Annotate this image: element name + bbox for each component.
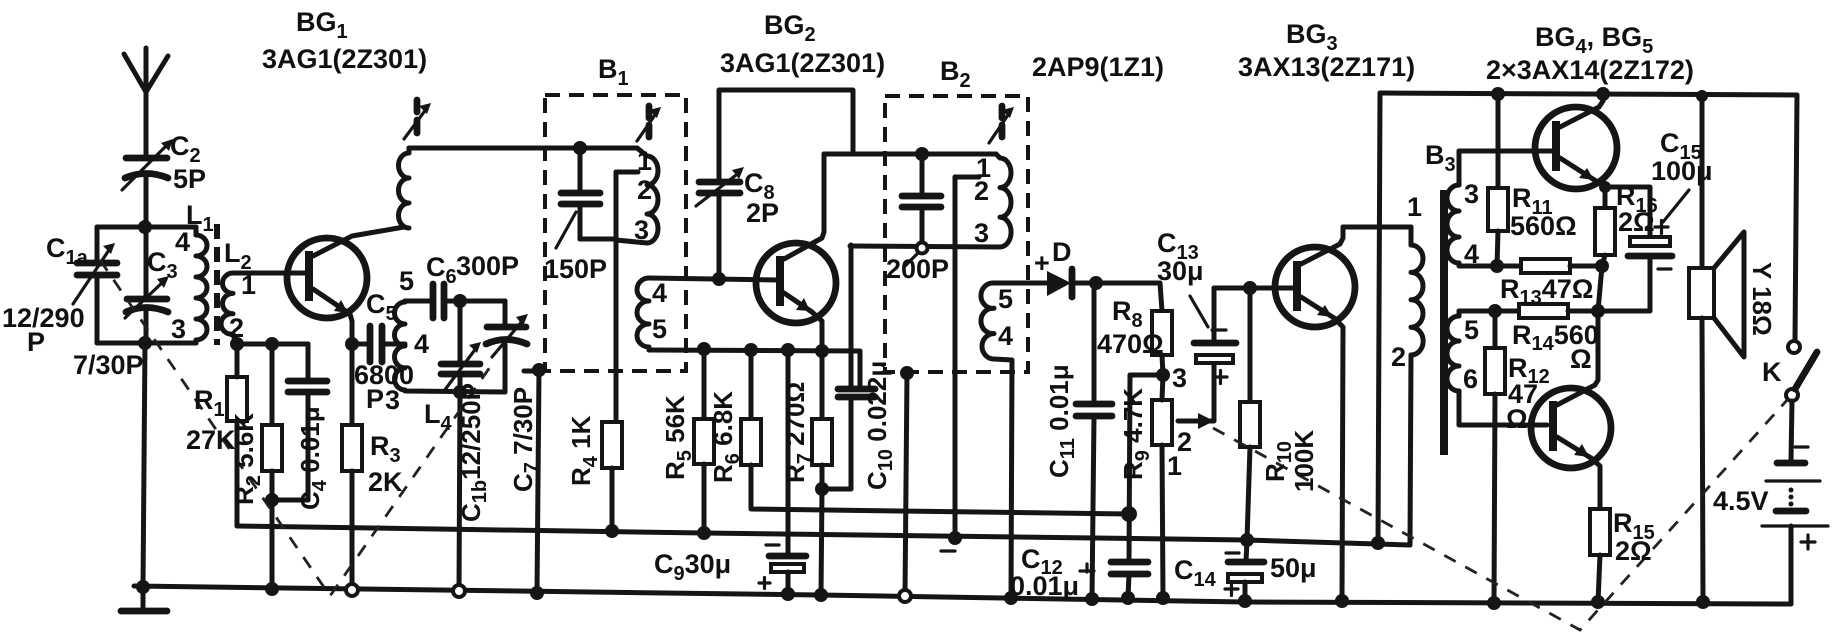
label C3: [147, 247, 178, 283]
label BG2 type: [720, 10, 885, 78]
wire: emitter bias rail: [649, 342, 860, 389]
capacitor C7 (7/30P trimmer): [486, 301, 528, 392]
wire: L2 to BG1 base: [233, 271, 308, 276]
IF transformer B1 (shield box): [545, 95, 686, 371]
capacitor C9 30u (electrolytic): [759, 350, 806, 601]
svg-text:5: 5: [1464, 315, 1479, 345]
label C2 5P: [170, 131, 206, 194]
svg-text:4: 4: [175, 227, 190, 257]
transistor BG4: [1535, 87, 1617, 208]
label L4 pin3: [385, 385, 400, 415]
resistor R15 2ohm: [1590, 509, 1610, 609]
svg-text:2AP9(1Z1): 2AP9(1Z1): [1032, 52, 1164, 82]
svg-text:C11 0.01μ: C11 0.01μ: [1044, 364, 1079, 478]
label B2: [940, 56, 971, 92]
label R7 value (vertical): [780, 382, 816, 483]
svg-text:2: 2: [974, 176, 989, 206]
svg-text:R1347Ω: R1347Ω: [1500, 274, 1593, 309]
wire: top rail to supply bus: [1371, 93, 1385, 550]
capacitor 150P: [556, 148, 616, 248]
node antenna/tank: [97, 220, 196, 234]
svg-text:2K: 2K: [368, 467, 403, 497]
capacitor C6 300P: [433, 284, 460, 318]
label L2 pins: [229, 270, 256, 343]
capacitor C11 0.01u: [1076, 283, 1112, 606]
resistor R10 100K: [1240, 288, 1260, 547]
svg-text:Y 18Ω: Y 18Ω: [1747, 262, 1777, 336]
gang link C1a-C1b (dashed): [100, 260, 495, 596]
capacitor C13 30u (electrolytic): [1190, 288, 1236, 384]
gang link R9-K (dashed): [1213, 399, 1788, 630]
capacitor C1a (12/290P gang section): [73, 227, 117, 343]
svg-text:Ω: Ω: [1506, 404, 1528, 434]
label L2: [224, 238, 252, 274]
capacitor C4 0.01u: [272, 344, 327, 500]
svg-text:3: 3: [974, 218, 989, 248]
svg-text:0.01μ: 0.01μ: [1010, 571, 1079, 601]
label C8 value: [744, 168, 779, 228]
ferrite core: [214, 224, 220, 345]
capacitor C15 100u (electrolytic): [1598, 187, 1689, 311]
capacitor C12 0.01u: [1080, 562, 1148, 605]
label BG1 type: [262, 7, 427, 74]
capacitor C10 0.022u: [822, 245, 875, 489]
wire: detector to BG3 base: [1214, 281, 1294, 295]
svg-text:2: 2: [637, 175, 652, 205]
wire: antenna column to ground: [136, 343, 150, 608]
label R15 value: [1613, 508, 1655, 566]
label R4 value (vertical): [566, 415, 602, 486]
label L1: [186, 200, 214, 236]
wire: BG2 collector to B2: [824, 152, 996, 157]
wire: tank bottom: [405, 385, 505, 399]
label BG4 BG5 type: [1486, 22, 1694, 85]
label R10 value (vertical): [1260, 430, 1319, 492]
capacitor 200P: [850, 154, 1000, 266]
svg-text:3: 3: [171, 314, 186, 344]
label C14 value: [1174, 553, 1317, 591]
svg-text:2Ω: 2Ω: [1615, 536, 1652, 566]
transistor BG3: [1275, 227, 1355, 608]
resistor R12 47ohm: [1485, 311, 1505, 610]
svg-text:50μ: 50μ: [1270, 553, 1317, 583]
B3 primary winding (pins 1,2): [1410, 227, 1423, 545]
svg-text:470Ω: 470Ω: [1097, 329, 1164, 359]
svg-text:3: 3: [634, 215, 649, 245]
svg-text:6: 6: [1463, 364, 1478, 394]
ground bus (battery + rail): [134, 586, 1791, 604]
top supply rail: [1380, 93, 1797, 95]
label R2 value (vertical): [229, 413, 265, 505]
label R9 value (vertical): [1118, 388, 1154, 480]
node base-bias: [230, 337, 308, 351]
wire: L3 top to B1: [409, 146, 637, 151]
node BG1 emitter: [345, 337, 359, 351]
svg-text:560Ω: 560Ω: [1510, 211, 1577, 241]
wire: B1 secondary to BG2 base: [649, 278, 777, 280]
label K: [1762, 357, 1782, 387]
label C12 value: [1010, 544, 1079, 601]
svg-text:3: 3: [385, 385, 400, 415]
label B2 pins: [974, 153, 1013, 351]
node B1 top: [573, 141, 587, 155]
resistor R3 2K: [342, 344, 362, 596]
resistor R5 56K: [694, 349, 714, 540]
transformer B3 core: [1440, 190, 1448, 455]
svg-text:1: 1: [241, 270, 256, 300]
label C1a value: [2, 303, 85, 357]
label R12 value: [1506, 353, 1550, 434]
label C1b value (vertical): [456, 383, 491, 522]
label speaker value (vertical): [1747, 262, 1777, 336]
label R3 value: [368, 431, 403, 497]
svg-text:4: 4: [414, 329, 429, 359]
svg-text:3AG1(2Z301): 3AG1(2Z301): [262, 44, 427, 74]
label C1a: [46, 233, 89, 269]
adjustable core L3: [404, 100, 431, 139]
svg-text:P: P: [27, 327, 45, 357]
B2 primary winding (pins 1,2,3): [996, 154, 1011, 247]
svg-text:C7 7/30P: C7 7/30P: [508, 387, 543, 492]
capacitor C3 (7/30P trimmer): [125, 227, 169, 343]
label R9 pins: [1167, 363, 1192, 481]
ground: [121, 608, 167, 615]
svg-text:1: 1: [1167, 451, 1182, 481]
resistor R11 560ohm: [1488, 87, 1508, 273]
label R5 value (vertical): [660, 395, 696, 480]
svg-text:150P: 150P: [544, 254, 607, 284]
node tank bottom: [97, 336, 196, 350]
label B3 pins: [1391, 179, 1479, 394]
label L4: [424, 399, 453, 435]
B2 secondary winding (pins 5,4): [981, 283, 1047, 605]
label B1: [598, 54, 629, 90]
svg-text:3: 3: [1464, 179, 1479, 209]
svg-text:Ω: Ω: [1570, 344, 1592, 374]
wire: L4 top to C6: [405, 299, 432, 304]
node tank top: [453, 294, 505, 308]
potentiometer R9 4.7K (volume): [1152, 362, 1214, 605]
label C15 value: [1651, 128, 1713, 186]
label R14 value: [1512, 320, 1599, 374]
wire: B2 corner to ground bus: [899, 366, 914, 602]
capacitor C2 (5P trimmer): [122, 139, 173, 227]
label B3: [1425, 140, 1456, 176]
label R16 value: [1616, 181, 1658, 237]
node B1 corner: [524, 363, 546, 600]
svg-text:+: +: [1034, 248, 1050, 278]
svg-text:100μ: 100μ: [1651, 156, 1713, 186]
svg-text:5P: 5P: [173, 164, 206, 194]
svg-text:1: 1: [637, 146, 652, 176]
capacitor C14 50u (electrolytic): [1225, 540, 1264, 608]
resistor R4 1K: [602, 422, 622, 538]
resistor R13 47ohm: [1497, 259, 1609, 273]
label battery value: [1713, 486, 1769, 516]
diode D 2AP9: [1047, 269, 1160, 297]
inductor L1 (antenna coil): [196, 227, 207, 343]
svg-text:3AX13(2Z171): 3AX13(2Z171): [1238, 52, 1415, 82]
transistor BG1: [287, 227, 404, 344]
svg-text:4: 4: [652, 278, 667, 308]
label C5 value: [354, 289, 414, 414]
label BG3 type: [1238, 19, 1415, 82]
svg-text:D: D: [1052, 237, 1072, 267]
label D: [1034, 237, 1072, 278]
inductor L4 (oscillator tank coil): [395, 301, 405, 390]
svg-text:2: 2: [1391, 342, 1406, 372]
svg-text:5: 5: [998, 284, 1013, 314]
wire: BG4 base: [1459, 149, 1552, 154]
label R1 value: [186, 385, 236, 455]
label C7 value (vertical): [508, 387, 543, 492]
B3 secondary winding (pins 3,4): [1447, 151, 1497, 266]
label diode type: [1032, 52, 1164, 82]
wire: tank to ground bus: [453, 392, 465, 597]
resistor R16 2ohm: [1595, 208, 1615, 266]
speaker Y 18ohm: [1689, 90, 1744, 609]
label L4 pins: [399, 266, 429, 359]
resistor R6 6.8K: [741, 350, 1129, 514]
label C10 value (vertical): [862, 361, 897, 490]
label C3 value: [73, 350, 144, 380]
svg-text:2P: 2P: [746, 198, 779, 228]
supply bus (negative rail, lower-middle): [237, 526, 1410, 545]
capacitor C5 6800P: [352, 326, 401, 362]
svg-text:7/30P: 7/30P: [73, 350, 144, 380]
transistor BG2: [756, 154, 836, 351]
IF transformer B2 (shield box): [885, 96, 1028, 372]
svg-text:P: P: [366, 384, 384, 414]
svg-text:2: 2: [229, 313, 244, 343]
label R8 value: [1097, 296, 1164, 359]
label B1 pins: [634, 146, 667, 344]
svg-text:2×3AX14(2Z172): 2×3AX14(2Z172): [1486, 55, 1694, 85]
node B2 top: [915, 147, 929, 161]
label R13 value: [1500, 274, 1593, 309]
label C4 value (vertical): [295, 406, 331, 510]
wire: AGC return: [1121, 375, 1163, 562]
svg-text:4: 4: [1464, 239, 1479, 269]
wire: BG3 collector to B3 primary: [1343, 225, 1411, 230]
resistor R1 27K: [227, 344, 247, 526]
inductor L3 (oscillator coil): [399, 148, 410, 228]
B1 primary winding (pins 1,2,3): [616, 148, 658, 243]
capacitor C1b (12/250P gang section): [441, 301, 481, 392]
svg-text:3AG1(2Z301): 3AG1(2Z301): [720, 48, 885, 78]
label C13 value: [1157, 228, 1204, 286]
label C9 value: [654, 549, 731, 585]
svg-text:100K: 100K: [1289, 430, 1319, 492]
label C6 value: [426, 251, 519, 288]
svg-text:5: 5: [399, 266, 414, 296]
antenna: [124, 48, 168, 157]
svg-text:5: 5: [652, 314, 667, 344]
svg-text:1: 1: [1407, 192, 1422, 222]
svg-text:K: K: [1762, 357, 1782, 387]
B3 secondary winding (pins 5,6): [1447, 311, 1547, 425]
svg-text:200P: 200P: [886, 254, 949, 284]
svg-text:30μ: 30μ: [1157, 256, 1204, 286]
svg-text:4: 4: [998, 321, 1013, 351]
switch K: [1786, 95, 1817, 401]
label 200P: [886, 254, 949, 284]
resistor R8 470ohm: [1152, 283, 1172, 382]
inductor L2 (coupling coil): [221, 273, 236, 344]
resistor R7 270ohm: [812, 351, 832, 602]
label R6 value (vertical): [708, 391, 744, 483]
svg-text:300P: 300P: [456, 251, 519, 281]
svg-text:2Ω: 2Ω: [1618, 207, 1655, 237]
label 150P: [544, 254, 607, 284]
resistor R14 560ohm: [1488, 266, 1605, 318]
wire: B2 tap to supply bus: [941, 177, 979, 551]
label L1 pins: [171, 227, 190, 344]
battery 4.5V: [1762, 401, 1828, 604]
resistor R2 5.6K: [262, 344, 282, 596]
wire: B1 tap to R4: [616, 172, 638, 422]
label R11 value: [1510, 183, 1577, 241]
svg-text:4.5V: 4.5V: [1713, 486, 1769, 516]
adjustable core B1: [637, 106, 661, 141]
svg-text:3: 3: [1172, 363, 1187, 393]
capacitor C8 2P: [696, 90, 853, 286]
adjustable core B2: [989, 106, 1014, 143]
label C11 value (vertical): [1044, 364, 1079, 478]
B1 secondary winding (pins 4,5): [637, 278, 649, 350]
transistor BG5: [1531, 311, 1611, 509]
